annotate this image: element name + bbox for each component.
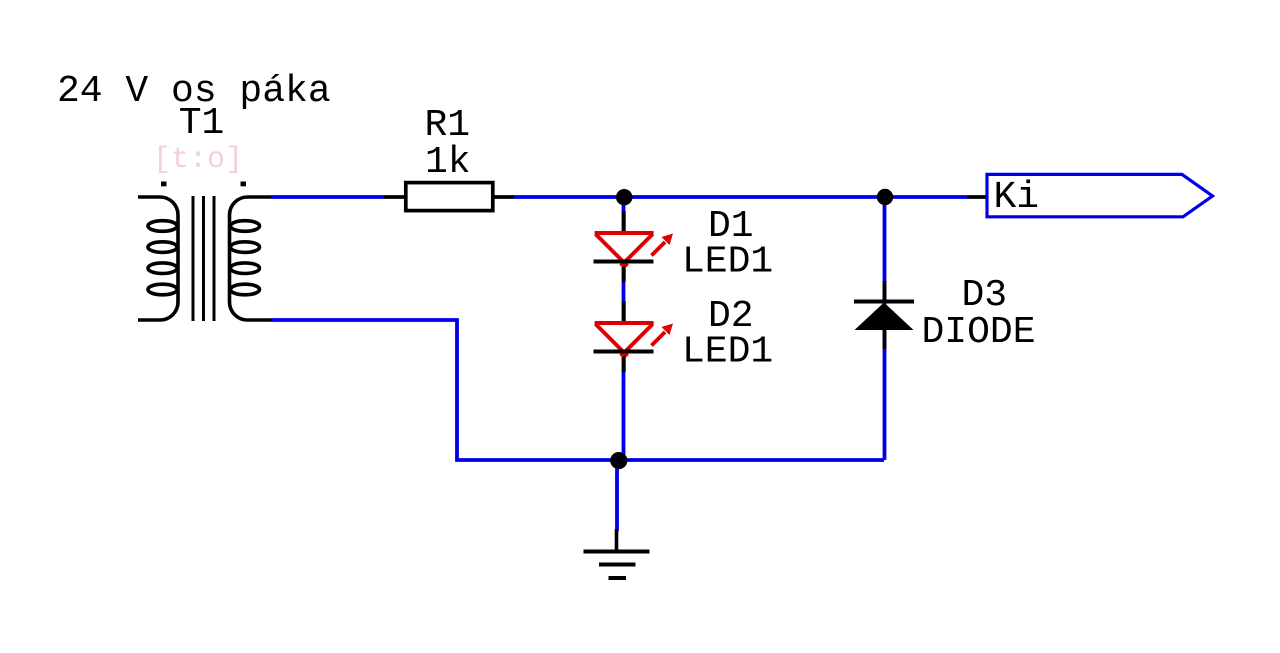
svg-text:LED1: LED1 [682,241,773,284]
svg-text:Ki: Ki [994,176,1040,219]
svg-text:LED1: LED1 [682,331,773,374]
svg-text:[t:o]: [t:o] [153,143,243,177]
svg-text:1k: 1k [425,141,471,184]
svg-text:DIODE: DIODE [922,311,1036,354]
svg-text:T1: T1 [179,102,225,145]
